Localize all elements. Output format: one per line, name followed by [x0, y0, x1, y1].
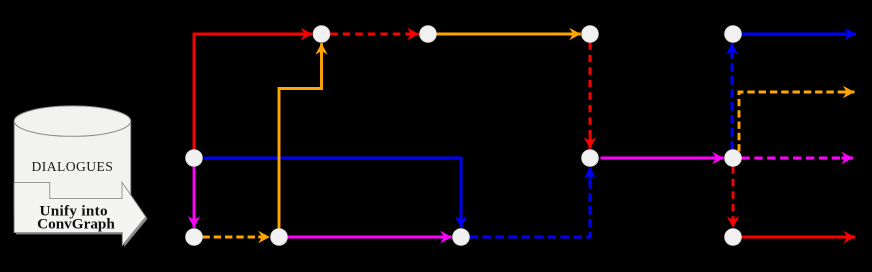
svg-text:DIALOGUES: DIALOGUES [31, 159, 113, 174]
svg-text:ConvGraph: ConvGraph [37, 216, 115, 233]
